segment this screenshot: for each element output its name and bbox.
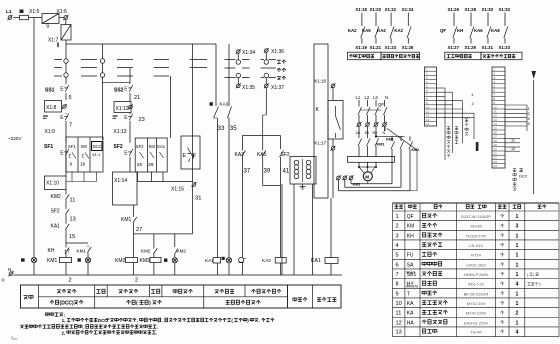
- svg-text:QF: QF: [378, 102, 384, 107]
- svg-text:X1:23: X1:23: [385, 45, 397, 50]
- svg-text:KA2: KA2: [348, 28, 357, 33]
- svg-text:KM1: KM1: [121, 217, 132, 223]
- svg-text:KA5: KA5: [362, 28, 371, 33]
- svg-text:,: ,: [83, 325, 84, 330]
- svg-text:KA1: KA1: [311, 258, 321, 264]
- svg-text:X1:28: X1:28: [465, 7, 477, 12]
- svg-text:L3: L3: [373, 95, 378, 100]
- svg-text:.: .: [259, 318, 260, 323]
- svg-text:DZ47-60 10A/3P: DZ47-60 10A/3P: [461, 214, 491, 219]
- svg-text:11: 11: [396, 311, 402, 317]
- svg-text:3: 3: [396, 233, 399, 239]
- svg-text:KA: KA: [407, 311, 414, 317]
- svg-text:KA1: KA1: [157, 144, 166, 149]
- svg-text:2: 2: [135, 278, 138, 284]
- svg-text:KH: KH: [407, 233, 414, 239]
- svg-text:4: 4: [515, 282, 518, 288]
- svg-text:KM3: KM3: [140, 258, 151, 264]
- svg-text:11: 11: [511, 139, 515, 143]
- svg-text:39: 39: [264, 169, 271, 175]
- svg-text:35: 35: [230, 125, 237, 132]
- svg-text:KH: KH: [457, 28, 463, 33]
- svg-text:X1:36: X1:36: [271, 49, 284, 55]
- svg-text:X1:12: X1:12: [116, 106, 129, 112]
- svg-text:E: E: [183, 153, 187, 159]
- svg-text:KM: KM: [407, 224, 415, 230]
- svg-text:N: N: [383, 131, 386, 135]
- svg-text:L1: L1: [356, 95, 361, 100]
- svg-text:F: F: [193, 154, 196, 160]
- svg-text:X1:27: X1:27: [448, 45, 460, 50]
- svg-text:17: 17: [64, 250, 70, 256]
- svg-text:TG-40: TG-40: [470, 330, 482, 335]
- svg-text:X1:1: X1:1: [92, 152, 101, 157]
- svg-text:X1:32: X1:32: [499, 7, 511, 12]
- svg-text:KM2: KM2: [51, 194, 62, 200]
- svg-text:14: 14: [426, 122, 430, 126]
- svg-text:LN-X14: LN-X14: [469, 243, 483, 248]
- svg-text:HMGHG: HMGHG: [406, 285, 419, 289]
- svg-text:X1:22: X1:22: [385, 7, 397, 12]
- svg-text:XM: XM: [81, 144, 88, 149]
- svg-text:L2: L2: [365, 95, 370, 100]
- svg-text:E: E: [82, 154, 85, 159]
- svg-text:1: 1: [515, 320, 518, 326]
- svg-text:X1:21: X1:21: [370, 45, 382, 50]
- svg-text:X1:6: X1:6: [57, 9, 68, 15]
- svg-text:1: 1: [515, 233, 518, 239]
- svg-text:1: 1: [396, 214, 399, 220]
- svg-text:AD17-22: AD17-22: [468, 282, 485, 287]
- svg-text:RT14: RT14: [471, 253, 481, 258]
- svg-text:19: 19: [80, 162, 86, 167]
- svg-text:X1:19: X1:19: [355, 45, 367, 50]
- svg-text:X1:7: X1:7: [48, 38, 59, 44]
- svg-text:1: 1: [515, 253, 518, 259]
- svg-text:SN-65: SN-65: [470, 224, 482, 229]
- svg-text:24: 24: [494, 164, 498, 168]
- svg-text:2: 2: [396, 224, 399, 230]
- svg-text:29: 29: [148, 162, 154, 167]
- svg-text:27: 27: [136, 227, 142, 233]
- svg-text:1: 1: [515, 243, 518, 249]
- svg-text:31: 31: [195, 196, 201, 202]
- svg-text:TH12CTXP: TH12CTXP: [466, 233, 487, 238]
- svg-text:SA: SA: [407, 262, 414, 268]
- svg-text:7: 7: [396, 272, 399, 278]
- svg-text:X1:16: X1:16: [314, 79, 326, 84]
- svg-text:(DCC): (DCC): [60, 301, 74, 307]
- svg-text:X1:9: X1:9: [45, 129, 56, 135]
- svg-text:T: T: [407, 291, 410, 297]
- svg-text:KA4: KA4: [377, 28, 386, 33]
- svg-text:X1:34: X1:34: [242, 50, 255, 56]
- svg-text:X1:13: X1:13: [114, 129, 127, 135]
- svg-text:41: 41: [283, 169, 290, 175]
- svg-text:KA: KA: [407, 301, 414, 307]
- svg-text:DCC: DCC: [519, 174, 528, 179]
- svg-text:QF: QF: [407, 214, 414, 220]
- svg-text:KA1: KA1: [51, 224, 61, 230]
- svg-text:5D: 5D: [373, 131, 378, 135]
- svg-text:SF1: SF1: [68, 144, 76, 149]
- svg-text:SS2: SS2: [114, 88, 124, 94]
- svg-text:11: 11: [70, 198, 76, 204]
- svg-text:SF2: SF2: [136, 144, 144, 149]
- svg-text:,: ,: [137, 318, 138, 323]
- svg-text:2: 2: [539, 283, 541, 287]
- svg-text:KM1: KM1: [386, 138, 394, 142]
- svg-text:KM2: KM2: [141, 249, 151, 254]
- svg-text:FU: FU: [407, 253, 414, 259]
- svg-text:KA8: KA8: [491, 28, 500, 33]
- svg-text:.: .: [156, 330, 157, 335]
- svg-text:LW22-16/3: LW22-16/3: [466, 262, 486, 267]
- svg-text:SF1: SF1: [44, 144, 53, 150]
- svg-text:KA2: KA2: [394, 28, 403, 33]
- svg-text:5: 5: [69, 95, 72, 101]
- svg-text:KM1: KM1: [377, 143, 385, 147]
- svg-text:4: 4: [515, 330, 518, 336]
- svg-text:X1:17: X1:17: [314, 141, 326, 146]
- svg-text:KM2: KM2: [115, 258, 126, 264]
- svg-text:X1:25: X1:25: [402, 45, 414, 50]
- svg-text:KM: KM: [149, 144, 156, 149]
- svg-text:SS1: SS1: [45, 88, 55, 94]
- svg-text:1: 1: [515, 301, 518, 307]
- svg-text:KA3: KA3: [262, 258, 271, 263]
- svg-text:SF1.2: SF1.2: [406, 270, 415, 274]
- svg-text:~220V: ~220V: [8, 136, 22, 141]
- svg-text:X1:37: X1:37: [271, 85, 284, 91]
- svg-text:KM3: KM3: [353, 183, 361, 187]
- svg-text:13: 13: [70, 217, 76, 223]
- svg-text:M: M: [365, 175, 369, 180]
- svg-text:X1:15: X1:15: [171, 187, 184, 193]
- svg-text:X1:20: X1:20: [370, 7, 382, 12]
- svg-text:DAS-01 220V: DAS-01 220V: [464, 320, 489, 325]
- svg-text:7: 7: [69, 123, 72, 129]
- svg-text:25: 25: [137, 162, 143, 167]
- svg-text:2,: 2,: [62, 330, 66, 335]
- svg-text:N: N: [385, 95, 388, 100]
- svg-text:5: 5: [396, 253, 399, 259]
- svg-text:X1:18: X1:18: [355, 7, 367, 12]
- svg-text:E: E: [69, 154, 72, 159]
- svg-text:23: 23: [139, 117, 145, 123]
- svg-text:KA6: KA6: [474, 28, 483, 33]
- svg-text:13: 13: [396, 330, 402, 336]
- svg-text:37: 37: [244, 169, 251, 175]
- svg-text:21: 21: [134, 95, 140, 101]
- svg-text:MY4J 24V: MY4J 24V: [467, 301, 486, 306]
- svg-text:3: 3: [515, 224, 518, 230]
- svg-text:9: 9: [396, 291, 399, 297]
- svg-text:8: 8: [396, 282, 399, 288]
- svg-text:KM1: KM1: [47, 258, 58, 264]
- svg-text:HA: HA: [407, 320, 415, 326]
- svg-text:L1: L1: [6, 9, 12, 15]
- svg-text:DCC: DCC: [93, 144, 102, 149]
- svg-text:2: 2: [515, 311, 518, 317]
- svg-text:SF2: SF2: [51, 209, 60, 215]
- svg-text:X1:10: X1:10: [46, 181, 59, 187]
- svg-text:12: 12: [511, 147, 515, 151]
- svg-text:X1:8: X1:8: [46, 105, 57, 111]
- svg-text:MY4J 220V: MY4J 220V: [466, 311, 487, 316]
- svg-text:KM2: KM2: [177, 249, 187, 254]
- svg-text:X1:35: X1:35: [242, 85, 255, 91]
- svg-text:12: 12: [396, 320, 402, 326]
- svg-text:.: .: [157, 325, 158, 330]
- svg-text:X1:5: X1:5: [29, 9, 40, 15]
- svg-text:15: 15: [69, 234, 75, 240]
- svg-text:SF2: SF2: [114, 144, 123, 150]
- svg-text:10: 10: [396, 301, 402, 307]
- svg-text:1: 1: [515, 291, 518, 297]
- svg-text:1,: 1,: [62, 318, 66, 323]
- svg-text:N: N: [8, 267, 11, 272]
- svg-text:1: 1: [515, 262, 518, 268]
- svg-text:33: 33: [218, 125, 225, 132]
- svg-text:X1:31: X1:31: [482, 45, 494, 50]
- svg-text:6: 6: [396, 262, 399, 268]
- svg-text:X1:30: X1:30: [482, 7, 494, 12]
- svg-text:KA3: KA3: [220, 102, 229, 107]
- svg-text:.: .: [162, 318, 163, 323]
- svg-text:KM1: KM1: [77, 249, 87, 254]
- svg-text:QF: QF: [440, 28, 446, 33]
- svg-text:HH54-P 2a2b: HH54-P 2a2b: [464, 272, 489, 277]
- svg-text:X1:33: X1:33: [499, 45, 511, 50]
- svg-text:X1:24: X1:24: [402, 7, 414, 12]
- svg-text:X1:26: X1:26: [448, 7, 460, 12]
- svg-text:3D: 3D: [365, 131, 370, 135]
- svg-text:BK-50 220/24: BK-50 220/24: [464, 291, 489, 296]
- svg-text:2: 2: [69, 278, 72, 284]
- svg-text:KH: KH: [48, 248, 55, 254]
- svg-text:1: 1: [515, 214, 518, 220]
- svg-text:X1:29: X1:29: [465, 45, 477, 50]
- svg-text:X1:14: X1:14: [114, 178, 127, 184]
- svg-text:4: 4: [396, 243, 399, 249]
- svg-text:1: 1: [515, 272, 518, 278]
- svg-text:1D: 1D: [356, 131, 361, 135]
- svg-text:KA5: KA5: [257, 152, 267, 158]
- svg-text:9: 9: [70, 162, 73, 167]
